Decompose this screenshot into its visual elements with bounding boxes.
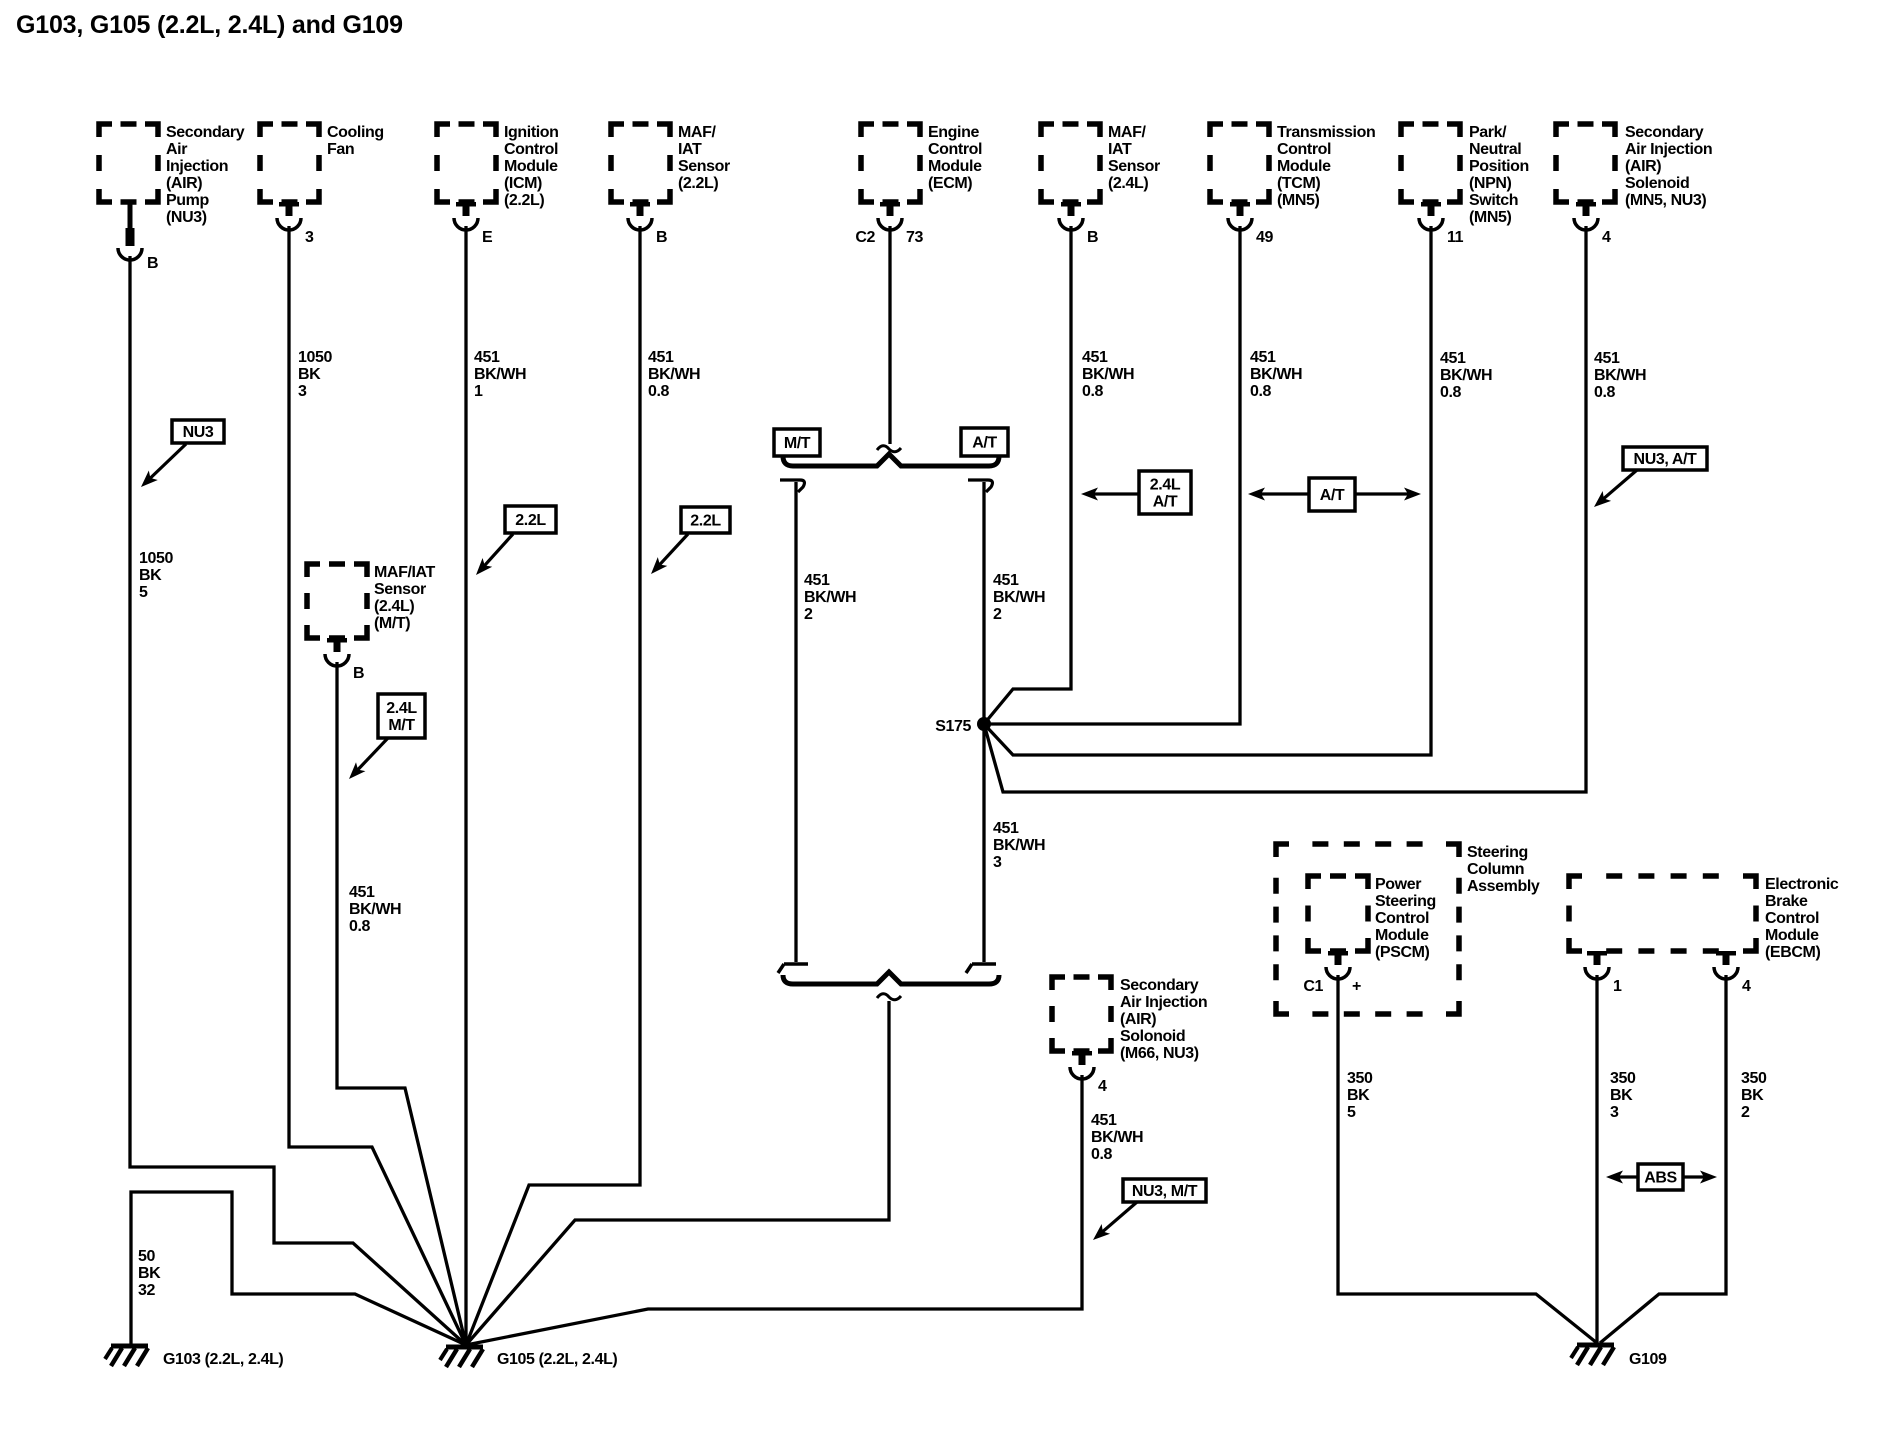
svg-text:A/T: A/T (1153, 494, 1178, 511)
EBCM connector pin 1 (1585, 951, 1622, 995)
svg-text:0.8: 0.8 (1594, 384, 1616, 401)
svg-text:Module: Module (1375, 927, 1429, 944)
MAF/IAT Sensor (2.4L) (M/T) component box (307, 564, 436, 638)
svg-text:Injection: Injection (166, 158, 228, 175)
svg-text:B: B (1087, 229, 1098, 246)
svg-text:Neutral: Neutral (1469, 141, 1521, 158)
wire label 451 BK/WH 0.8 sol (1594, 350, 1646, 401)
svg-text:11: 11 (1447, 229, 1464, 246)
svg-text:Control: Control (504, 141, 558, 158)
AIR solenoid M66 connector pin 4 (1070, 1051, 1107, 1095)
callout 2.2L (ICM wire) (471, 506, 556, 579)
svg-text:(PSCM): (PSCM) (1375, 944, 1430, 961)
svg-text:(NU3): (NU3) (166, 209, 207, 226)
callout NU3, A/T (1590, 447, 1707, 512)
svg-text:Position: Position (1469, 158, 1529, 175)
svg-text:A/T: A/T (1320, 487, 1345, 504)
wire 350 BK 2 from EBCM pin 4 to G109 (1600, 975, 1726, 1343)
svg-text:0.8: 0.8 (349, 918, 371, 935)
MAF/IAT 2.2L connector pin B (628, 202, 667, 246)
wire 451 BK/WH from ECM C2-73 down to harness bracket (888, 226, 891, 444)
svg-text:Module: Module (504, 158, 558, 175)
svg-text:2.4L: 2.4L (386, 700, 417, 717)
svg-text:Steering: Steering (1467, 844, 1528, 861)
callout NU3 (137, 420, 224, 492)
svg-text:451: 451 (648, 349, 674, 366)
svg-text:B: B (656, 229, 667, 246)
svg-text:BK/WH: BK/WH (349, 901, 401, 918)
svg-text:Transmission: Transmission (1277, 124, 1375, 141)
svg-text:G103, G105 (2.2L, 2.4L) and G1: G103, G105 (2.2L, 2.4L) and G109 (16, 11, 403, 39)
splice S175 (935, 717, 991, 735)
right branch bottom foot (966, 964, 996, 973)
wire 451 BK/WH 0.8 from AIR solenoid MN5/NU3 to splice S175 (984, 226, 1586, 792)
svg-text:3: 3 (305, 229, 314, 246)
svg-text:BK/WH: BK/WH (1594, 367, 1646, 384)
wire label 451 BK/WH 0.8 maf24 (1082, 349, 1134, 400)
svg-text:Engine: Engine (928, 124, 979, 141)
hook below bottom bracket (877, 994, 901, 1000)
ground G105 (440, 1347, 617, 1368)
svg-text:BK/WH: BK/WH (993, 589, 1045, 606)
svg-text:BK/WH: BK/WH (474, 366, 526, 383)
svg-text:+: + (1352, 978, 1361, 995)
svg-text:Sensor: Sensor (374, 581, 426, 598)
svg-text:NU3: NU3 (183, 424, 214, 441)
svg-text:4: 4 (1602, 229, 1611, 246)
wire 451 BK/WH 2 left branch M/T (780, 480, 804, 962)
svg-text:NU3, M/T: NU3, M/T (1132, 1183, 1198, 1200)
svg-text:Control: Control (1375, 910, 1429, 927)
PSCM connector C1 pin + (1303, 951, 1361, 995)
svg-text:(ICM): (ICM) (504, 175, 542, 192)
svg-text:Brake: Brake (1765, 893, 1808, 910)
svg-text:(M66, NU3): (M66, NU3) (1120, 1045, 1199, 1062)
break symbol at ECM wire end (877, 446, 901, 452)
ECM connector C2 pin 73 (855, 202, 923, 246)
svg-text:1: 1 (474, 383, 483, 400)
wire label 350 BK 5 (1347, 1070, 1373, 1121)
svg-text:BK/WH: BK/WH (1440, 367, 1492, 384)
cooling fan connector pin 3 (277, 202, 314, 246)
ground G109 (1571, 1345, 1667, 1368)
wire 1050 BK 3 from cooling fan to G105 (289, 226, 466, 1345)
harness bracket M/T-A/T top (783, 454, 999, 466)
svg-text:451: 451 (993, 572, 1019, 589)
wire label 451 BK/WH 1 (474, 349, 526, 400)
wire 50 BK 32 ground strap G103 to G105 (131, 1192, 466, 1346)
svg-text:Module: Module (928, 158, 982, 175)
wire 451 BK/WH 0.8 from MAF/IAT 2.4L to splice S175 (984, 226, 1071, 724)
Transmission Control Module (TCM) (MN5) component box (1210, 124, 1375, 209)
svg-text:350: 350 (1741, 1070, 1767, 1087)
svg-text:Power: Power (1375, 876, 1421, 893)
svg-text:Module: Module (1277, 158, 1331, 175)
svg-text:BK: BK (139, 567, 162, 584)
svg-text:Steering: Steering (1375, 893, 1436, 910)
svg-text:Assembly: Assembly (1467, 878, 1540, 895)
wire label 350 BK 3 (1610, 1070, 1636, 1121)
svg-text:Air Injection: Air Injection (1625, 141, 1712, 158)
svg-text:2.2L: 2.2L (690, 513, 721, 530)
wire 451 BK/WH 0.8 from NPN switch to splice S175 (984, 226, 1431, 755)
wire 350 BK 3 from EBCM pin 1 to G109 (1595, 975, 1598, 1343)
wire 451 BK/WH 2 right branch A/T (968, 480, 992, 962)
callout 2.4L A/T with arrow (1081, 471, 1191, 514)
svg-text:(AIR): (AIR) (166, 175, 202, 192)
svg-text:Sensor: Sensor (678, 158, 730, 175)
svg-text:Cooling: Cooling (327, 124, 384, 141)
svg-text:2: 2 (1741, 1104, 1750, 1121)
svg-text:Solonoid: Solonoid (1120, 1028, 1185, 1045)
callout A/T (bracket) (961, 428, 1008, 456)
Steering Column Assembly outer box (1276, 844, 1540, 1014)
svg-text:5: 5 (1347, 1104, 1356, 1121)
left branch bottom foot (778, 964, 808, 973)
callout 2.2L (MAF wire) (646, 507, 730, 578)
svg-text:Fan: Fan (327, 141, 354, 158)
svg-text:BK/WH: BK/WH (804, 589, 856, 606)
Secondary Air Injection (AIR) Solenoid (M66, NU3) component box (1052, 977, 1207, 1062)
Secondary Air Injection (AIR) Pump (NU3) component box (99, 124, 245, 226)
svg-text:451: 451 (1082, 349, 1108, 366)
Secondary Air Injection (AIR) Solenoid (MN5, NU3) component box (1556, 124, 1712, 209)
wire label 50 BK 32 (138, 1248, 161, 1299)
MAF/IAT 2.4L M/T connector pin B (325, 638, 364, 682)
svg-text:G105 (2.2L, 2.4L): G105 (2.2L, 2.4L) (497, 1351, 617, 1368)
callout ABS double arrow (1606, 1164, 1717, 1190)
wire label 451 BK/WH 0.8 maf22 (648, 349, 700, 400)
svg-text:Air Injection: Air Injection (1120, 994, 1207, 1011)
svg-text:BK: BK (1610, 1087, 1633, 1104)
wire 451 BK/WH 0.8 from AIR solenoid M66 to G105 (466, 1075, 1082, 1345)
svg-text:C2: C2 (855, 229, 875, 246)
svg-text:350: 350 (1610, 1070, 1636, 1087)
svg-text:Park/: Park/ (1469, 124, 1507, 141)
svg-text:BK/WH: BK/WH (648, 366, 700, 383)
svg-text:0.8: 0.8 (1091, 1146, 1113, 1163)
wire 451 BK/WH 3 from bracket to G105 (466, 1001, 889, 1345)
svg-text:Control: Control (1277, 141, 1331, 158)
svg-text:BK: BK (1741, 1087, 1764, 1104)
wire 350 BK 5 from PSCM to G109 (1338, 975, 1597, 1343)
svg-text:Control: Control (928, 141, 982, 158)
wire label 350 BK 2 (1741, 1070, 1767, 1121)
svg-text:(MN5): (MN5) (1277, 192, 1320, 209)
wire label 1050 BK 3 (298, 349, 332, 400)
wire label 451 BK/WH 0.8 npn (1440, 350, 1492, 401)
svg-text:(2.4L): (2.4L) (1108, 175, 1148, 192)
wire label 451 BK/WH 2 left (804, 572, 856, 623)
svg-text:Column: Column (1467, 861, 1524, 878)
svg-text:2.4L: 2.4L (1150, 477, 1181, 494)
svg-text:Module: Module (1765, 927, 1819, 944)
callout NU3, M/T (1089, 1179, 1206, 1245)
svg-text:(MN5, NU3): (MN5, NU3) (1625, 192, 1706, 209)
svg-text:0.8: 0.8 (648, 383, 670, 400)
svg-text:(2.4L): (2.4L) (374, 598, 414, 615)
svg-text:BK/WH: BK/WH (1250, 366, 1302, 383)
svg-text:Air: Air (166, 141, 187, 158)
svg-text:BK/WH: BK/WH (993, 837, 1045, 854)
svg-text:451: 451 (993, 820, 1019, 837)
svg-text:2.2L: 2.2L (515, 512, 546, 529)
callout M/T (774, 429, 820, 456)
svg-text:3: 3 (993, 854, 1002, 871)
svg-text:1050: 1050 (298, 349, 332, 366)
svg-text:ABS: ABS (1644, 1170, 1677, 1187)
svg-text:BK/WH: BK/WH (1091, 1129, 1143, 1146)
Ignition Control Module (ICM) (2.2L) component box (437, 124, 559, 209)
svg-text:3: 3 (298, 383, 307, 400)
wire label 451 BK/WH 0.8 m66 (1091, 1112, 1143, 1163)
svg-text:Switch: Switch (1469, 192, 1518, 209)
svg-text:0.8: 0.8 (1440, 384, 1462, 401)
svg-text:Secondary: Secondary (1120, 977, 1199, 994)
svg-text:MAF/: MAF/ (1108, 124, 1146, 141)
svg-text:451: 451 (804, 572, 830, 589)
svg-text:5: 5 (139, 584, 148, 601)
wire label 451 BK/WH 3 (993, 820, 1045, 871)
svg-text:(ECM): (ECM) (928, 175, 972, 192)
svg-text:E: E (482, 229, 493, 246)
svg-text:451: 451 (1091, 1112, 1117, 1129)
svg-text:IAT: IAT (1108, 141, 1132, 158)
wire 451 BK/WH 0.8 from MAF/IAT 2.2L to G105 (466, 226, 640, 1345)
svg-text:S175: S175 (935, 718, 971, 735)
AIR solenoid MN5/NU3 connector pin 4 (1574, 202, 1611, 246)
svg-text:49: 49 (1256, 229, 1273, 246)
svg-text:32: 32 (138, 1282, 155, 1299)
ICM connector pin E (454, 202, 493, 246)
MAF/IAT Sensor (2.2L) component box (611, 124, 730, 202)
svg-text:2: 2 (993, 606, 1002, 623)
svg-text:NU3, A/T: NU3, A/T (1634, 451, 1698, 468)
svg-text:(AIR): (AIR) (1120, 1011, 1156, 1028)
svg-text:Pump: Pump (166, 192, 209, 209)
svg-text:(2.2L): (2.2L) (678, 175, 718, 192)
wire label 1050 BK 5 (139, 550, 173, 601)
NPN switch connector pin 11 (1419, 202, 1464, 246)
svg-text:(MN5): (MN5) (1469, 209, 1512, 226)
title (16, 11, 403, 39)
svg-text:Secondary: Secondary (166, 124, 245, 141)
svg-text:3: 3 (1610, 1104, 1619, 1121)
AIR pump connector pin B (118, 202, 158, 272)
wire 451 BK/WH 0.8 from TCM to splice S175 (984, 226, 1240, 724)
svg-text:0.8: 0.8 (1250, 383, 1272, 400)
svg-text:M/T: M/T (388, 717, 415, 734)
wire 451 BK/WH 1 from ICM to G105 (464, 226, 467, 1345)
svg-text:Secondary: Secondary (1625, 124, 1704, 141)
svg-text:B: B (147, 255, 158, 272)
EBCM connector pin 4 (1714, 951, 1751, 995)
callout 2.4L M/T (344, 694, 425, 783)
wire label 451 BK/WH 0.8 tcm (1250, 349, 1302, 400)
svg-text:451: 451 (1440, 350, 1466, 367)
svg-text:451: 451 (1594, 350, 1620, 367)
svg-text:1050: 1050 (139, 550, 173, 567)
svg-text:451: 451 (1250, 349, 1276, 366)
svg-text:350: 350 (1347, 1070, 1373, 1087)
svg-text:(2.2L): (2.2L) (504, 192, 544, 209)
svg-text:Solenoid: Solenoid (1625, 175, 1689, 192)
svg-text:B: B (353, 665, 364, 682)
svg-text:2: 2 (804, 606, 813, 623)
svg-text:M/T: M/T (784, 435, 811, 452)
svg-text:Sensor: Sensor (1108, 158, 1160, 175)
svg-text:(AIR): (AIR) (1625, 158, 1661, 175)
svg-text:BK/WH: BK/WH (1082, 366, 1134, 383)
Power Steering Control Module (PSCM) box (1308, 876, 1436, 961)
svg-text:Control: Control (1765, 910, 1819, 927)
svg-text:(TCM): (TCM) (1277, 175, 1320, 192)
svg-text:1: 1 (1613, 978, 1622, 995)
MAF/IAT 2.4L connector pin B (1059, 202, 1098, 246)
Electronic Brake Control Module (EBCM) box (1569, 876, 1839, 961)
svg-text:IAT: IAT (678, 141, 702, 158)
svg-text:C1: C1 (1303, 978, 1323, 995)
svg-text:451: 451 (349, 884, 375, 901)
svg-text:451: 451 (474, 349, 500, 366)
svg-text:Ignition: Ignition (504, 124, 559, 141)
svg-text:(M/T): (M/T) (374, 615, 410, 632)
harness bracket bottom (783, 972, 999, 984)
callout A/T double arrow (1248, 478, 1421, 511)
svg-text:MAF/: MAF/ (678, 124, 716, 141)
Engine Control Module (ECM) component box (861, 124, 982, 202)
svg-text:G103 (2.2L, 2.4L): G103 (2.2L, 2.4L) (163, 1351, 283, 1368)
Cooling Fan component box (260, 124, 384, 202)
svg-text:G109: G109 (1629, 1351, 1667, 1368)
wire 1050 BK 5 from AIR pump to G105 (130, 256, 466, 1345)
svg-text:BK: BK (138, 1265, 161, 1282)
svg-text:BK: BK (1347, 1087, 1370, 1104)
svg-text:4: 4 (1098, 1078, 1107, 1095)
svg-text:A/T: A/T (972, 435, 997, 452)
wire label 451 BK/WH 2 right (993, 572, 1045, 623)
svg-text:0.8: 0.8 (1082, 383, 1104, 400)
svg-text:4: 4 (1742, 978, 1751, 995)
TCM connector pin 49 (1228, 202, 1273, 246)
svg-text:(NPN): (NPN) (1469, 175, 1512, 192)
wire 451 BK/WH 0.8 from MAF/IAT 2.4L M/T to G105 (337, 662, 466, 1345)
svg-text:73: 73 (906, 229, 923, 246)
MAF/IAT Sensor (2.4L) component box (1041, 124, 1160, 202)
ground G103 (105, 1346, 283, 1368)
svg-text:MAF/IAT: MAF/IAT (374, 564, 436, 581)
svg-text:Electronic: Electronic (1765, 876, 1839, 893)
Park/Neutral Position (NPN) Switch (MN5) component box (1401, 124, 1529, 226)
svg-text:(EBCM): (EBCM) (1765, 944, 1820, 961)
svg-text:BK: BK (298, 366, 321, 383)
wire label 451 BK/WH 0.8 mafmt (349, 884, 401, 935)
svg-text:50: 50 (138, 1248, 155, 1265)
